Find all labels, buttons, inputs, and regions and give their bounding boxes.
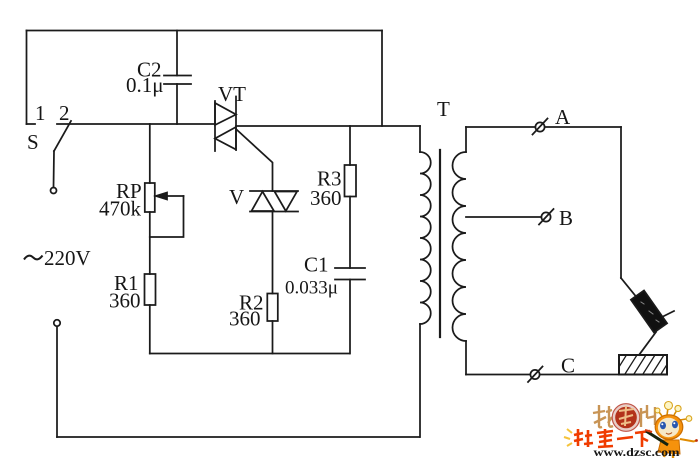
- wire secondary bottom bend: [465, 341, 467, 375]
- wire contact-1 stub: [27, 123, 36, 125]
- wire primary bottom: [419, 324, 421, 437]
- svg-text:470k: 470k: [99, 197, 142, 221]
- resistor R2: [267, 294, 278, 322]
- wire R2 bottom: [272, 321, 274, 354]
- wire supply down: [56, 327, 58, 438]
- diac V: [250, 191, 298, 212]
- wire bottom: [57, 436, 420, 438]
- watermark char zhao: [593, 405, 613, 427]
- transformer T secondary winding: [453, 152, 466, 341]
- wire V to R2: [272, 212, 274, 294]
- wire top: [27, 30, 383, 32]
- capacitor C2: [164, 31, 191, 125]
- wire top-right edge: [381, 31, 383, 127]
- wire electrode lead: [621, 278, 636, 297]
- triac VT: [215, 97, 236, 152]
- watermark weiku text: [574, 429, 650, 447]
- svg-text:www.dzsc.com: www.dzsc.com: [594, 445, 680, 459]
- wire R3 to C1: [349, 197, 351, 269]
- wire gate: [237, 130, 273, 192]
- svg-text:360: 360: [229, 307, 261, 331]
- svg-text:0.1μ: 0.1μ: [126, 73, 164, 97]
- wire inner bottom: [150, 353, 350, 355]
- heating pen electrode: [631, 291, 674, 356]
- transformer T primary winding: [420, 152, 431, 324]
- wire main right: [236, 125, 420, 127]
- wire RP to R1: [149, 212, 151, 274]
- svg-text:360: 360: [109, 289, 141, 313]
- svg-text:VT: VT: [218, 82, 246, 106]
- wire secondary right: [620, 127, 622, 278]
- svg-text:S: S: [27, 130, 39, 154]
- watermark char pian: [641, 405, 656, 427]
- svg-text:220V: 220V: [44, 246, 91, 270]
- wire C1 bottom: [349, 280, 351, 354]
- watermark mascot: [645, 402, 698, 459]
- wire R3 branch: [349, 126, 351, 165]
- wire main left: [57, 123, 215, 125]
- terminal C: [528, 367, 543, 383]
- svg-text:C: C: [561, 354, 575, 378]
- capacitor C1: [335, 268, 365, 280]
- wire secondary bottom: [466, 374, 619, 376]
- svg-text:T: T: [437, 97, 450, 121]
- svg-text:C1: C1: [304, 253, 329, 277]
- wire secondary top: [466, 126, 621, 128]
- wire tap B: [466, 216, 541, 218]
- wire RP branch: [149, 124, 151, 183]
- watermark logo: [564, 402, 698, 460]
- wire primary top: [419, 126, 421, 152]
- svg-text:1: 1: [35, 101, 46, 125]
- switch S blade: [51, 121, 72, 194]
- wire R1 bottom: [149, 305, 151, 354]
- svg-text:360: 360: [310, 186, 342, 210]
- svg-text:0.033μ: 0.033μ: [285, 278, 338, 299]
- resistor R3: [345, 165, 357, 197]
- wire secondary top bend: [465, 127, 467, 152]
- svg-text:V: V: [229, 185, 244, 209]
- terminal B: [539, 209, 554, 225]
- watermark sparkle: [564, 429, 572, 446]
- svg-text:2: 2: [59, 101, 70, 125]
- potentiometer RP: [145, 183, 184, 237]
- transformer core: [439, 150, 441, 337]
- terminal A: [533, 119, 548, 135]
- label ~220V: [24, 256, 43, 260]
- svg-text:A: A: [555, 105, 571, 129]
- workpiece (hatched block): [619, 355, 667, 375]
- watermark magnifier: [612, 404, 640, 432]
- resistor R1: [145, 274, 156, 305]
- svg-text:B: B: [559, 206, 573, 230]
- supply terminal: [54, 320, 60, 326]
- wire left edge: [26, 31, 28, 125]
